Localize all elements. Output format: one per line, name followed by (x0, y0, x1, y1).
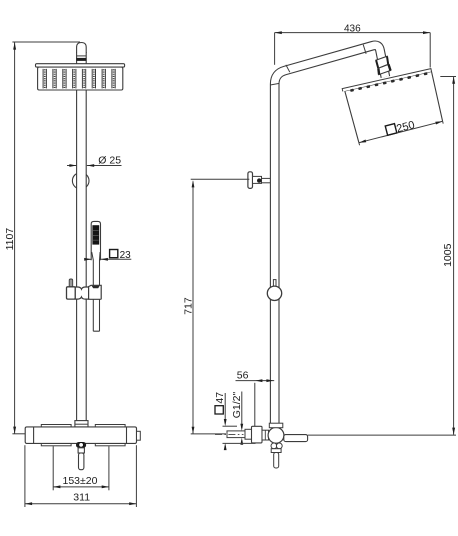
dimension square-47: extension lines from flange (223, 425, 238, 427)
front view: holder pin (69, 279, 73, 288)
dimension 56: line and arrows (236, 380, 275, 382)
front view: mixer bar shelf top strips (41, 425, 71, 428)
side view: riser pipe with top bend and arm (275, 45, 386, 423)
front view: shower head top plate (36, 64, 125, 67)
dimension 153pm20: line and arrows (53, 486, 109, 488)
dimension square-250: corner extension stubs (358, 143, 361, 146)
dimension 56: extension line from flange (254, 383, 256, 427)
dimension square-250: square symbol (385, 124, 397, 136)
dimension 1107: vertical line (14, 42, 16, 433)
front view: shower arm dome cap (77, 43, 87, 54)
front view: hand shower head (91, 221, 100, 260)
front view: shower head body (38, 67, 123, 90)
side view: head nozzle nubs (350, 89, 354, 92)
svg-text:153±20: 153±20 (63, 475, 98, 487)
front view: diverter knob ball nut (76, 442, 86, 448)
side view: mixer centre dash line (215, 433, 244, 435)
svg-text:1005: 1005 (442, 243, 454, 267)
dimension 311: line and arrows (25, 503, 136, 505)
side view: lower valve stem (274, 453, 279, 469)
dimension square-23: square symbol (110, 250, 118, 258)
svg-text:Ø 25: Ø 25 (98, 154, 121, 166)
side view: head top slab (342, 69, 431, 92)
dimension 1107: bottom leader to mixer bar (12, 433, 25, 435)
front view: mixer bar left end cap line (33, 427, 35, 444)
front view: arm collar band (76, 55, 86, 57)
side view: wall bracket arm (253, 176, 262, 183)
front view: mixer bar right end cap line (126, 427, 128, 444)
side view: head swivel connector nut 1 (376, 56, 388, 68)
front view: riser pipe body (77, 48, 87, 421)
dimension 717: bottom leader to mixer centre (191, 433, 226, 435)
dimension square-47: square symbol (215, 406, 223, 414)
front view: riser-to-mixer fitting (75, 421, 88, 427)
svg-text:56: 56 (237, 369, 249, 381)
front view: hand shower spray face (92, 225, 99, 244)
dimension 153pm20: extension lines (52, 446, 54, 490)
svg-text:47: 47 (214, 392, 226, 404)
side view: pipe seam at bend start (270, 83, 279, 85)
front view: mixer bar shelf bottom strips (41, 443, 71, 446)
side view: diverter ball (273, 280, 276, 287)
side view: escutcheon flange (252, 426, 263, 443)
dimension 1005: top leader (440, 76, 456, 78)
side view: head spray face panel (345, 72, 443, 143)
svg-text:311: 311 (73, 492, 90, 504)
front view: hand shower wand (93, 258, 99, 331)
dimension 311: extension lines (24, 445, 26, 507)
dimension G1/2: vertical line and arrows (241, 392, 243, 429)
side view: head swivel connector nut 2 (378, 64, 391, 74)
dimension 436: extension lines (274, 33, 276, 65)
side view: mixer handle lever (284, 435, 308, 442)
side view: mixer body ball (268, 427, 284, 443)
front view: shower head nozzle ribs (42, 69, 44, 89)
dimension 717: vertical line (192, 182, 194, 434)
svg-text:23: 23 (120, 250, 132, 261)
front view: diverter knob stem (79, 453, 84, 470)
side view: pipe seam near arm end (363, 45, 366, 54)
dimension square-250: line along head bottom edge with arrows (359, 121, 443, 142)
side view: wall inlet nipple (227, 431, 245, 438)
svg-text:1107: 1107 (4, 228, 16, 251)
dimension 717: top leader to wall bracket (191, 178, 250, 180)
front view: diverter knob collar (78, 448, 84, 453)
front view: mixer bar body (25, 427, 136, 444)
front view: slider ring on riser pipe (72, 173, 89, 190)
front view: mixer bar right stub (137, 431, 141, 440)
dimension 1107: top leader to arm dome (12, 41, 80, 43)
dimension 1005: vertical line (453, 77, 455, 435)
side view: inlet mid cylinder (245, 429, 252, 439)
dimension Ø25: line and arrows (67, 165, 77, 167)
side view: lower valve band (271, 449, 281, 453)
dimension square-23: line and arrows (85, 258, 92, 260)
dimension 1005: bottom leader to mixer handle (308, 434, 456, 436)
side view: body connector (262, 430, 269, 440)
side view: pipe-to-body nut (269, 423, 283, 428)
side view: temperature rings (271, 443, 277, 449)
dimension 436: line and arrows (275, 32, 431, 34)
dimension square-47: vertical line and arrows (224, 393, 226, 423)
front view: slider holder bracket (67, 287, 76, 299)
side view: wall bracket flange (248, 172, 253, 189)
svg-text:G1/2": G1/2" (231, 392, 243, 419)
side view: pipe seam at arm start (286, 65, 290, 72)
svg-text:717: 717 (182, 297, 194, 315)
svg-text:436: 436 (344, 23, 361, 34)
